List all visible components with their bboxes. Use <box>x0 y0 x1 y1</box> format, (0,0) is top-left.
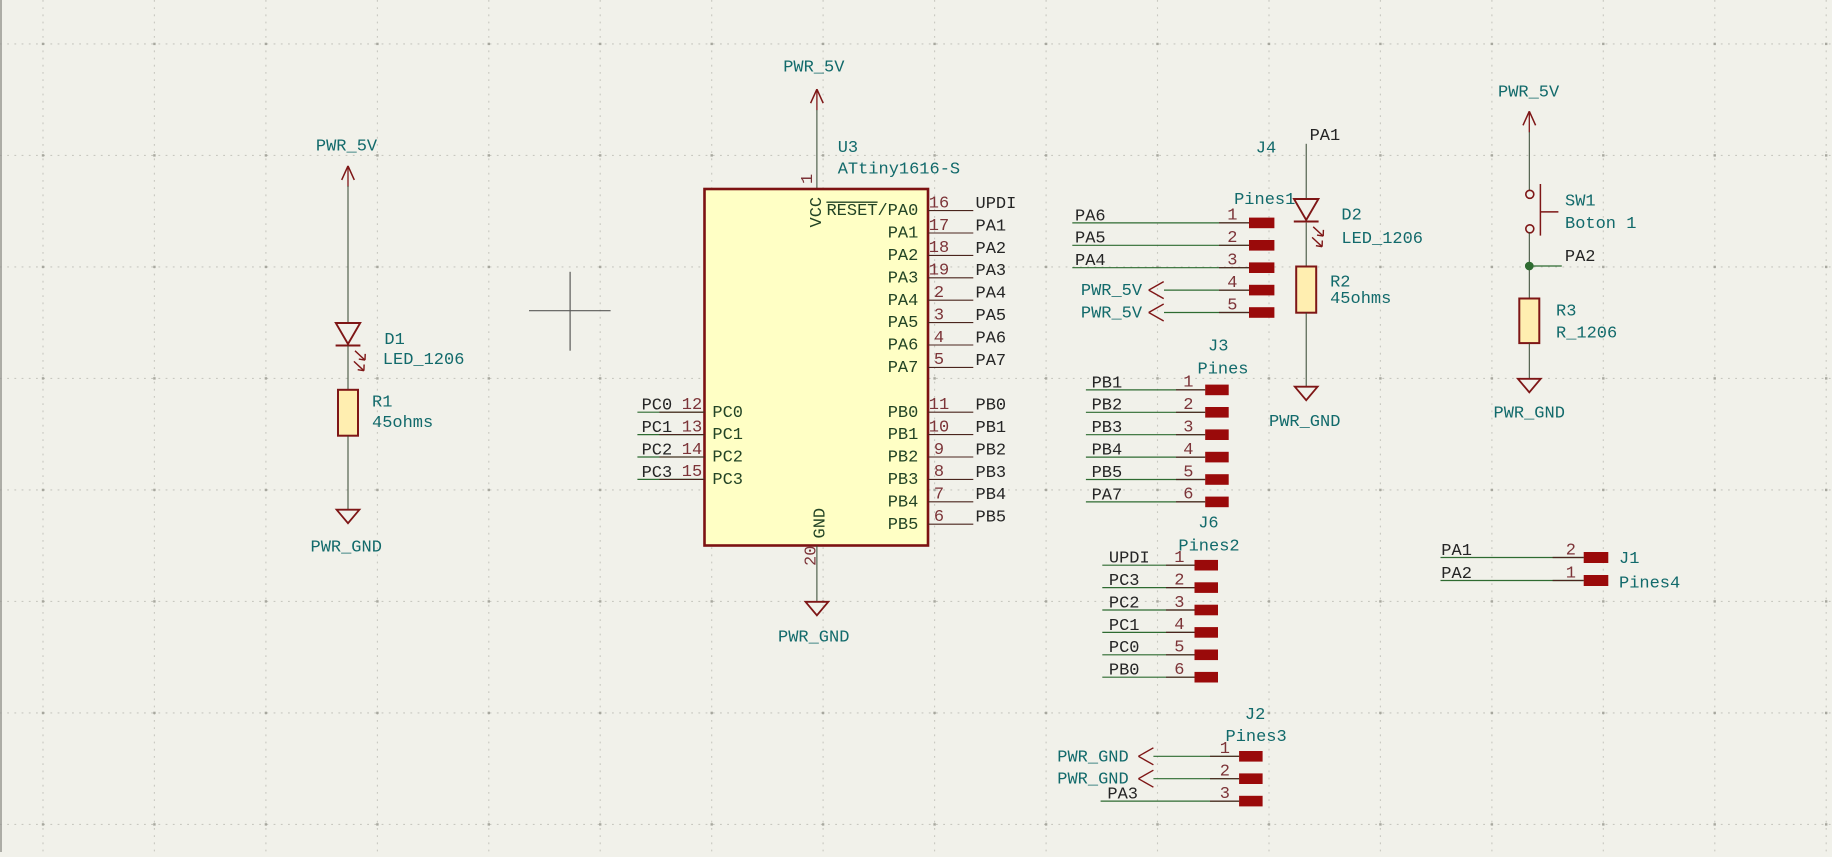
svg-text:PA6: PA6 <box>888 337 919 356</box>
svg-text:PA6: PA6 <box>976 329 1007 348</box>
U3 pin 6 PB5 / label PB5 <box>928 523 973 525</box>
svg-text:Pines3: Pines3 <box>1226 728 1287 747</box>
svg-text:7: 7 <box>934 486 944 505</box>
U3 pin 17 PA1 / label PA1 <box>928 232 973 234</box>
svg-text:LED_1206: LED_1206 <box>383 351 465 370</box>
svg-text:2: 2 <box>934 284 944 303</box>
svg-text:9: 9 <box>934 441 944 460</box>
svg-text:PA1: PA1 <box>1310 127 1341 146</box>
svg-text:20: 20 <box>803 546 822 566</box>
svg-text:10: 10 <box>929 418 949 437</box>
svg-text:PA3: PA3 <box>888 269 919 288</box>
svg-text:RESET/PA0: RESET/PA0 <box>826 202 918 221</box>
J6 pin 6 label PB0 <box>1195 672 1219 683</box>
svg-text:17: 17 <box>929 217 949 236</box>
J3 pin 4 label PB4 <box>1205 452 1229 463</box>
svg-text:PB0: PB0 <box>888 404 919 423</box>
svg-text:R_1206: R_1206 <box>1556 325 1617 344</box>
svg-text:PB4: PB4 <box>976 486 1007 505</box>
svg-text:R3: R3 <box>1556 303 1576 322</box>
svg-text:PB1: PB1 <box>1092 374 1123 393</box>
svg-text:ATtiny1616-S: ATtiny1616-S <box>838 160 960 179</box>
svg-text:PB3: PB3 <box>888 471 919 490</box>
svg-text:D1: D1 <box>384 331 404 350</box>
wire <box>1528 343 1530 379</box>
svg-text:PWR_5V: PWR_5V <box>1498 83 1560 102</box>
LED D1 <box>336 323 360 344</box>
svg-text:PA4: PA4 <box>1075 252 1106 271</box>
svg-text:LED_1206: LED_1206 <box>1341 230 1423 249</box>
svg-text:PA4: PA4 <box>976 285 1007 304</box>
svg-text:PA7: PA7 <box>888 359 919 378</box>
svg-text:13: 13 <box>682 418 702 437</box>
svg-text:1: 1 <box>799 174 818 184</box>
ground PWR_GND (U3) <box>806 602 829 616</box>
svg-text:45ohms: 45ohms <box>1330 290 1391 309</box>
svg-text:PWR_5V: PWR_5V <box>1081 305 1143 324</box>
switch SW1 Boton 1 <box>1526 190 1534 198</box>
svg-text:PA2: PA2 <box>888 247 919 266</box>
svg-text:J3: J3 <box>1208 338 1228 357</box>
svg-text:U3: U3 <box>838 139 858 158</box>
J1 pin 1 label PA2 <box>1584 575 1609 586</box>
resistor R3 <box>1519 299 1539 344</box>
J3 pin 3 label PB3 <box>1205 429 1229 440</box>
svg-text:PC0: PC0 <box>712 404 743 423</box>
svg-text:PWR_5V: PWR_5V <box>783 58 845 77</box>
J4 pin 3 label PA4 <box>1249 262 1274 273</box>
svg-text:UPDI: UPDI <box>1109 550 1150 569</box>
J6 pin 4 label PC1 <box>1195 627 1219 638</box>
svg-text:3: 3 <box>934 306 944 325</box>
U3 pin 8 PB3 / label PB3 <box>928 478 973 480</box>
svg-text:PA2: PA2 <box>1565 248 1596 267</box>
U3 pin 18 PA2 / label PA2 <box>928 254 973 256</box>
svg-text:12: 12 <box>682 396 702 415</box>
svg-text:PC2: PC2 <box>1109 594 1140 613</box>
svg-text:J4: J4 <box>1256 140 1276 159</box>
svg-text:Pines4: Pines4 <box>1619 575 1680 594</box>
svg-text:PB5: PB5 <box>888 516 919 535</box>
op-amp U3 body <box>705 189 929 546</box>
U3 pin 9 PB2 / label PB2 <box>928 456 973 458</box>
LED D2 <box>1294 199 1318 220</box>
svg-text:Boton 1: Boton 1 <box>1565 215 1636 234</box>
svg-text:PA4: PA4 <box>888 292 919 311</box>
J6 pin 1 label UPDI <box>1195 560 1219 571</box>
svg-text:PC1: PC1 <box>712 426 743 445</box>
svg-text:PC3: PC3 <box>642 464 673 483</box>
wire <box>1528 232 1530 298</box>
wire <box>816 546 818 602</box>
svg-text:PA5: PA5 <box>1075 230 1106 249</box>
svg-text:PC3: PC3 <box>1109 572 1140 591</box>
svg-text:PWR_GND: PWR_GND <box>1057 748 1128 767</box>
J1 pin 2 label PA1 <box>1584 552 1609 563</box>
svg-text:PB1: PB1 <box>888 426 919 445</box>
svg-text:Pines2: Pines2 <box>1178 537 1239 556</box>
U3 pin 14 PC2 / label PC2 <box>637 456 704 458</box>
svg-text:14: 14 <box>682 441 702 460</box>
J4 pin 1 label PA6 <box>1249 218 1274 229</box>
svg-text:PWR_GND: PWR_GND <box>778 629 849 648</box>
J3 pin 1 label PB1 <box>1205 385 1229 396</box>
svg-text:PA1: PA1 <box>976 217 1007 236</box>
wire <box>1305 144 1307 199</box>
svg-text:PA7: PA7 <box>1092 486 1123 505</box>
U3 pin 15 PC3 / label PC3 <box>637 478 704 480</box>
svg-text:PA1: PA1 <box>888 225 919 244</box>
junction node PA2 <box>1525 262 1534 271</box>
svg-text:19: 19 <box>929 262 949 281</box>
svg-text:PWR_5V: PWR_5V <box>1081 282 1143 301</box>
svg-text:PA2: PA2 <box>976 240 1007 259</box>
svg-text:PWR_5V: PWR_5V <box>316 138 378 157</box>
J6 pin 3 label PC2 <box>1195 605 1219 616</box>
svg-text:PA6: PA6 <box>1075 207 1106 226</box>
J3 pin 5 label PB5 <box>1205 474 1229 485</box>
svg-text:PWR_GND: PWR_GND <box>1269 413 1340 432</box>
svg-text:PC2: PC2 <box>642 441 673 460</box>
svg-text:PA5: PA5 <box>976 307 1007 326</box>
J6 pin 2 label PC3 <box>1195 582 1219 593</box>
svg-text:D2: D2 <box>1341 207 1361 226</box>
svg-text:Pines: Pines <box>1198 361 1249 380</box>
origin cross marker <box>529 310 611 312</box>
svg-text:J1: J1 <box>1619 550 1639 569</box>
svg-text:PA3: PA3 <box>976 262 1007 281</box>
U3 pin 19 PA3 / label PA3 <box>928 277 973 279</box>
ground PWR_GND (left branch) <box>337 510 360 524</box>
svg-text:PC0: PC0 <box>1109 639 1140 658</box>
svg-text:PWR_GND: PWR_GND <box>311 539 382 558</box>
wire <box>1529 265 1562 267</box>
wire <box>1305 313 1307 387</box>
J4 pin 4 label PWR_5V <box>1249 285 1274 296</box>
svg-text:8: 8 <box>934 463 944 482</box>
svg-text:PA2: PA2 <box>1441 565 1472 584</box>
U3 pin 7 PB4 / label PB4 <box>928 501 973 503</box>
J4 pin 2 label PA5 <box>1249 240 1274 251</box>
svg-text:PB2: PB2 <box>888 449 919 468</box>
J6 pin 5 label PC0 <box>1195 650 1219 661</box>
svg-text:PWR_GND: PWR_GND <box>1494 405 1565 424</box>
wire <box>816 110 818 189</box>
svg-text:PB4: PB4 <box>888 493 919 512</box>
svg-text:PB0: PB0 <box>1109 662 1140 681</box>
svg-text:15: 15 <box>682 463 702 482</box>
svg-text:5: 5 <box>934 351 944 370</box>
resistor R1 <box>338 390 358 436</box>
wire <box>347 346 349 390</box>
J2 pin 3 label PA3 <box>1239 796 1263 807</box>
svg-text:45ohms: 45ohms <box>372 414 433 433</box>
svg-text:PA5: PA5 <box>888 314 919 333</box>
ground PWR_GND (SW1 branch) <box>1518 379 1541 393</box>
U3 pin 5 PA7 / label PA7 <box>928 366 973 368</box>
wire <box>347 436 349 510</box>
resistor R2 <box>1296 267 1316 313</box>
svg-text:SW1: SW1 <box>1565 193 1596 212</box>
svg-text:VCC: VCC <box>808 197 827 228</box>
svg-text:R1: R1 <box>372 393 392 412</box>
svg-text:PB2: PB2 <box>1092 397 1123 416</box>
J4 pin 5 label PWR_5V <box>1249 307 1274 318</box>
svg-text:UPDI: UPDI <box>976 195 1017 214</box>
J2 pin 1 label PWR_GND <box>1239 751 1263 762</box>
U3 pin 3 PA5 / label PA5 <box>928 322 973 324</box>
U3 pin 11 PB0 / label PB0 <box>928 411 973 413</box>
svg-text:4: 4 <box>934 329 944 348</box>
svg-text:PC1: PC1 <box>642 419 673 438</box>
U3 pin 4 PA6 / label PA6 <box>928 344 973 346</box>
svg-text:PB3: PB3 <box>976 464 1007 483</box>
svg-text:PB3: PB3 <box>1092 419 1123 438</box>
J2 pin 2 label PWR_GND <box>1239 773 1263 784</box>
svg-text:PA3: PA3 <box>1107 786 1138 805</box>
svg-text:PB1: PB1 <box>976 419 1007 438</box>
svg-text:PB5: PB5 <box>976 509 1007 528</box>
U3 pin 2 PA4 / label PA4 <box>928 299 973 301</box>
U3 pin 13 PC1 / label PC1 <box>637 434 704 436</box>
svg-text:Pines1: Pines1 <box>1234 191 1295 210</box>
svg-text:GND: GND <box>812 508 831 539</box>
svg-text:PB5: PB5 <box>1092 464 1123 483</box>
svg-text:18: 18 <box>929 239 949 258</box>
U3 pin 12 PC0 / label PC0 <box>637 411 704 413</box>
svg-text:PC1: PC1 <box>1109 617 1140 636</box>
svg-text:PA7: PA7 <box>976 352 1007 371</box>
svg-text:J2: J2 <box>1245 706 1265 725</box>
U3 pin 10 PB1 / label PB1 <box>928 434 973 436</box>
svg-text:16: 16 <box>929 194 949 213</box>
svg-text:PB0: PB0 <box>976 397 1007 416</box>
svg-text:PB4: PB4 <box>1092 442 1123 461</box>
svg-text:6: 6 <box>934 508 944 527</box>
J3 pin 6 label PA7 <box>1205 497 1229 508</box>
J3 pin 2 label PB2 <box>1205 407 1229 418</box>
svg-text:PC3: PC3 <box>712 471 743 490</box>
ground PWR_GND (D2 branch) <box>1295 387 1318 401</box>
svg-text:11: 11 <box>929 396 949 415</box>
svg-text:PB2: PB2 <box>976 441 1007 460</box>
svg-text:J6: J6 <box>1198 515 1218 534</box>
svg-text:PC2: PC2 <box>712 449 743 468</box>
U3 pin 16 RESET/PA0 / label UPDI <box>928 210 973 212</box>
wire <box>1305 223 1307 267</box>
wire <box>347 186 349 323</box>
wire <box>1528 132 1530 190</box>
svg-text:PC0: PC0 <box>642 397 673 416</box>
svg-text:PA1: PA1 <box>1441 542 1472 561</box>
